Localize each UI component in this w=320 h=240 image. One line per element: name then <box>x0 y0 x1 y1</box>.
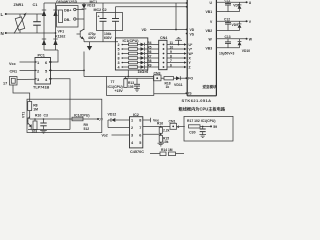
svg-text:VT1: VT1 <box>22 112 26 118</box>
svg-text:8: 8 <box>170 54 172 58</box>
svg-text:N: N <box>1 31 4 36</box>
svg-text:8: 8 <box>118 57 120 61</box>
collector node wire <box>29 117 31 120</box>
svg-text:TLP741B: TLP741B <box>33 86 50 90</box>
svg-text:8: 8 <box>139 119 141 123</box>
resistor R8 1M <box>28 102 38 117</box>
svg-text:C11: C11 <box>225 0 231 2</box>
svg-text:+15V: +15V <box>115 89 124 93</box>
svg-text:IC1(CPU): IC1(CPU) <box>74 114 90 118</box>
svg-text:512: 512 <box>84 127 90 131</box>
phase terminals <box>246 1 248 3</box>
svg-text:C1: C1 <box>33 3 38 7</box>
wire DB+ to VD13 <box>76 9 84 11</box>
wire CN1 down to R8 <box>13 85 30 102</box>
svg-text:R10: R10 <box>35 113 41 117</box>
svg-text:10: 10 <box>170 45 174 49</box>
svg-text:R14 1M: R14 1M <box>161 148 173 152</box>
VB row wires <box>216 11 239 13</box>
svg-text:VD10: VD10 <box>242 49 250 53</box>
AC detect circuit board box <box>27 99 102 132</box>
DC- rail to module VS <box>116 6 188 8</box>
capacitor C3 <box>40 118 46 129</box>
wire Vcc to PC1 pin1 <box>20 61 36 63</box>
svg-text:105: 105 <box>128 85 134 89</box>
svg-text:+: + <box>98 15 100 19</box>
svg-text:5: 5 <box>139 141 141 145</box>
svg-text:3: 3 <box>118 52 120 56</box>
gate drive rows <box>118 41 159 47</box>
ground on row 11 <box>175 37 182 45</box>
wire L <box>7 13 45 15</box>
svg-text:W: W <box>249 38 252 42</box>
gate signal wires to module with pin numbers <box>167 41 187 69</box>
svg-text:4: 4 <box>177 125 179 129</box>
DC+ top rail <box>44 2 187 4</box>
wire CN1 label to PC1 pin2 <box>20 69 36 71</box>
svg-text:R9: R9 <box>147 63 151 67</box>
wire PC1 pin6 to bridge bottom <box>51 50 59 62</box>
svg-text:VD9: VD9 <box>232 23 239 27</box>
capacitor C30 <box>189 126 206 138</box>
svg-text:7: 7 <box>139 126 141 130</box>
svg-text:11: 11 <box>170 41 174 45</box>
svg-text:17: 17 <box>3 82 7 86</box>
svg-text:R5: R5 <box>147 45 151 49</box>
resistor R9 <box>72 117 89 131</box>
svg-text:10μ50V×3: 10μ50V×3 <box>219 52 234 56</box>
detect ground rail <box>28 129 70 131</box>
svg-text:C30: C30 <box>189 130 195 134</box>
svg-text:PC1: PC1 <box>38 54 45 58</box>
svg-text:3: 3 <box>131 134 133 138</box>
svg-text:1M: 1M <box>33 108 38 112</box>
svg-text:Z: Z <box>189 66 191 70</box>
svg-text:IC2: IC2 <box>133 113 139 117</box>
svg-text:R7: R7 <box>147 54 151 58</box>
svg-text:VD12: VD12 <box>108 113 117 117</box>
svg-text:W*: W* <box>189 52 194 56</box>
svg-text:77: 77 <box>111 80 115 84</box>
wire rail drop to VD <box>175 3 177 30</box>
svg-text:2.2k: 2.2k <box>163 129 170 133</box>
current sense RC box <box>107 70 154 95</box>
resistor R15 10k <box>159 135 169 144</box>
svg-text:DB+: DB+ <box>64 9 71 13</box>
phase row wires U V W <box>216 1 246 3</box>
wire CN1 to PC1 pin3 <box>17 78 35 80</box>
resistor R18 <box>161 77 174 90</box>
svg-text:CN1: CN1 <box>10 69 18 73</box>
svg-text:Vo2: Vo2 <box>102 134 108 138</box>
svg-text:630V: 630V <box>104 36 113 40</box>
svg-text:IC1(CPU): IC1(CPU) <box>123 39 140 43</box>
PC1 pin dots <box>35 61 50 79</box>
svg-text:R17 102 IC1(CPU): R17 102 IC1(CPU) <box>187 119 215 123</box>
svg-text:VD: VD <box>142 28 147 32</box>
svg-text:VS: VS <box>190 33 195 37</box>
svg-text:VD13: VD13 <box>87 3 96 7</box>
svg-text:K1162: K1162 <box>55 35 65 39</box>
svg-text:粗线框内为CPU主板电路: 粗线框内为CPU主板电路 <box>179 106 226 113</box>
resistor R10 <box>32 118 38 133</box>
svg-text:STK621-051A: STK621-051A <box>182 98 212 103</box>
CPU interface box IC1 <box>115 38 147 70</box>
FO node wire <box>124 77 154 79</box>
svg-text:6: 6 <box>170 63 172 67</box>
IS wire to RC box <box>154 93 186 95</box>
svg-text:逆变模块: 逆变模块 <box>203 84 217 89</box>
svg-text:VD11: VD11 <box>174 83 183 87</box>
ground arrow <box>87 42 92 51</box>
svg-text:VF1: VF1 <box>58 30 65 34</box>
svg-text:FO: FO <box>188 76 193 80</box>
svg-text:R16: R16 <box>157 121 163 125</box>
CPU filter board box <box>184 116 233 141</box>
svg-text:R4: R4 <box>147 41 151 45</box>
bridge rectifier <box>42 3 58 50</box>
diode VD11 <box>174 76 186 87</box>
resistor R16 2.2k <box>159 126 169 134</box>
svg-text:103: 103 <box>32 130 38 134</box>
svg-text:6: 6 <box>139 134 141 138</box>
inverter module box (cropped at top) <box>187 0 216 96</box>
svg-text:5: 5 <box>118 48 120 52</box>
svg-text:C12: C12 <box>224 17 230 21</box>
svg-text:Vcc: Vcc <box>9 62 16 66</box>
svg-text:2: 2 <box>131 126 133 130</box>
wire DB- to VF1 <box>76 18 84 20</box>
svg-text:DB-: DB- <box>64 18 71 22</box>
svg-text:59: 59 <box>213 125 217 129</box>
ground <box>40 131 47 134</box>
svg-text:ZNR1: ZNR1 <box>14 3 24 7</box>
svg-text:C3: C3 <box>44 113 48 117</box>
wire VF1 node down to sense box <box>83 52 85 77</box>
svg-text:2: 2 <box>118 43 120 47</box>
feedback wire pin2 <box>107 120 109 128</box>
svg-text:1: 1 <box>131 119 133 123</box>
feedback wire pin6 <box>143 133 161 135</box>
svg-text:VB3: VB3 <box>206 46 213 50</box>
svg-text:R6: R6 <box>147 50 151 54</box>
svg-text:1kΩ×6: 1kΩ×6 <box>138 70 149 74</box>
svg-text:VB1: VB1 <box>206 10 213 14</box>
svg-text:VB2: VB2 <box>206 29 213 33</box>
svg-text:MC2 C2: MC2 C2 <box>94 8 107 12</box>
wire N <box>7 32 56 34</box>
Vee supply pin8 <box>143 119 151 121</box>
svg-text:L: L <box>1 12 4 17</box>
wire PC1 pin4 down into AC detect box <box>51 79 71 130</box>
svg-text:77: 77 <box>99 118 103 122</box>
ground under R15 <box>158 143 164 146</box>
mid rail under C2 <box>84 41 118 43</box>
svg-text:1k: 1k <box>166 85 170 89</box>
svg-text:7: 7 <box>170 59 172 63</box>
svg-text:CN4: CN4 <box>160 36 167 40</box>
svg-text:C4570C: C4570C <box>130 150 144 154</box>
svg-text:400V: 400V <box>88 36 97 40</box>
wire PC1 pin5 to VF1 node <box>51 69 85 71</box>
svg-text:C13: C13 <box>225 35 231 39</box>
output wire pin7 <box>143 126 170 128</box>
svg-text:CN1: CN1 <box>169 119 176 123</box>
inrush box with DB terminals <box>57 6 79 28</box>
svg-text:R8: R8 <box>147 59 151 63</box>
svg-text:9: 9 <box>170 50 172 54</box>
svg-text:3: 3 <box>118 61 120 65</box>
DC- bottom rail from bridge <box>44 49 58 51</box>
